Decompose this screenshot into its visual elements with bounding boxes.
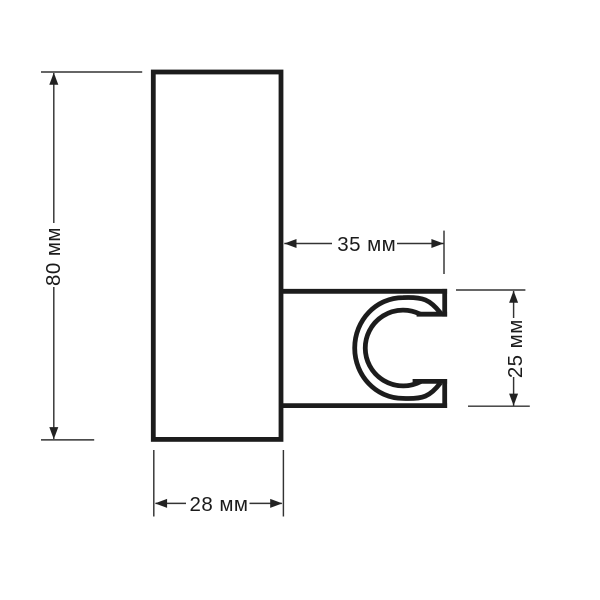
dim 28mm right arrowhead	[270, 499, 282, 508]
dim 80mm up arrowhead	[49, 73, 58, 85]
dim 35mm right arrowhead	[431, 239, 443, 248]
dim 35mm right extension line	[443, 231, 445, 274]
dim 35mm line left segment	[284, 243, 332, 245]
dim 28mm line left segment	[156, 502, 187, 504]
dim 80mm line upper segment	[53, 73, 55, 223]
holder bottom edge	[279, 403, 447, 408]
svg-text:25 мм: 25 мм	[504, 319, 527, 378]
dim 28mm left arrowhead	[155, 499, 167, 508]
cup inner wall arc	[365, 310, 421, 386]
dim 28mm right extension line	[282, 450, 284, 517]
dim 25mm up arrowhead	[509, 291, 518, 303]
slot bottom edge	[413, 379, 448, 384]
dim 80mm label	[42, 227, 65, 286]
dim 35mm line right segment	[397, 243, 444, 245]
dim 25mm line lower segment	[513, 377, 515, 406]
dim 80mm top extension line	[41, 71, 142, 73]
dim 25mm label	[504, 319, 527, 378]
dim 25mm bottom extension line	[468, 405, 530, 407]
dim 25mm line upper segment	[513, 291, 515, 318]
dim 25mm top extension line	[456, 289, 525, 291]
dim 28mm line right segment	[250, 502, 282, 504]
svg-text:80 мм: 80 мм	[42, 227, 65, 286]
cup outer wall arc	[355, 297, 441, 398]
dim 25mm down arrowhead	[509, 394, 518, 406]
dim 80mm down arrowhead	[49, 427, 58, 439]
svg-text:28 мм: 28 мм	[190, 493, 249, 516]
holder right edge lower segment	[442, 379, 447, 408]
dim 28mm left extension line	[153, 450, 155, 517]
holder right edge upper segment	[442, 289, 447, 317]
dim 80mm bottom extension line	[41, 439, 94, 441]
slot top edge	[417, 312, 448, 317]
svg-text:35 мм: 35 мм	[337, 233, 396, 256]
holder top edge	[279, 289, 447, 294]
wall plate (side view rectangle)	[153, 72, 281, 439]
dim 80mm line lower segment	[53, 287, 55, 439]
dim 35mm left arrowhead	[284, 239, 296, 248]
